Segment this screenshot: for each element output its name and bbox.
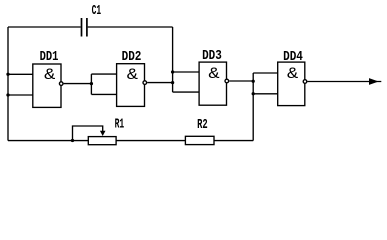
capacitor C1 [82, 18, 87, 37]
R1 wiper [73, 126, 103, 141]
gate DD4 [278, 62, 305, 106]
svg-text:&: & [127, 66, 139, 84]
node DD1 output junction [90, 82, 93, 85]
svg-text:DD1: DD1 [40, 50, 59, 65]
svg-text:&: & [44, 66, 56, 84]
wire riser 3 [252, 73, 254, 141]
wire output [307, 81, 381, 83]
bubble DD3 output [225, 79, 229, 83]
svg-text:&: & [287, 65, 299, 83]
node DD4 input 2 [252, 92, 255, 95]
gate DD1 [33, 64, 61, 107]
node DD3 output junction [252, 80, 255, 83]
wire DD2 input 2 [91, 93, 116, 95]
gate DD2 [117, 64, 145, 107]
wire DD3 input 2 [173, 91, 200, 93]
wire top right (C1 to riser2) [88, 26, 173, 28]
wire bottom bus left [8, 140, 88, 142]
wire DD4 input 1 [253, 72, 278, 74]
R1 wiper arrow [100, 131, 106, 136]
wire bus R2 to riser 3 [214, 140, 253, 142]
bubble DD2 output [143, 81, 147, 85]
svg-text:DD4: DD4 [283, 50, 303, 65]
svg-text:R1: R1 [115, 118, 125, 133]
wire riser 2 [172, 27, 174, 92]
resistor R1 [88, 137, 116, 145]
node DD1 input 1 [6, 73, 9, 76]
wire DD4 input 2 [253, 93, 278, 95]
output arrow [369, 78, 379, 85]
node R1 wiper tap [71, 139, 74, 142]
wire left bus [7, 27, 9, 141]
resistor R2 [185, 136, 214, 144]
svg-text:DD2: DD2 [122, 50, 142, 65]
wire DD2 output [147, 82, 172, 84]
node DD1 input 2 [6, 93, 9, 96]
svg-text:&: & [208, 65, 220, 83]
wire DD3 input 1 [173, 71, 200, 73]
svg-text:C1: C1 [92, 4, 102, 19]
bubble DD1 output [59, 82, 63, 86]
wire DD1 output [64, 83, 92, 85]
wire DD1 input 1 [8, 73, 33, 75]
svg-text:DD3: DD3 [202, 49, 222, 64]
node DD3 input 1 [171, 70, 174, 73]
node DD2 output junction [171, 81, 174, 84]
gate DD3 [199, 62, 226, 105]
bubble DD4 output [303, 80, 307, 84]
wire riser 1 [90, 74, 92, 94]
wire top left (bus to C1) [8, 26, 81, 28]
wire DD2 input 1 [91, 73, 116, 75]
wire DD3 output [229, 80, 253, 82]
svg-text:R2: R2 [197, 118, 208, 133]
wire DD1 input 2 [8, 94, 33, 96]
wire bus R1 to R2 [116, 140, 185, 142]
